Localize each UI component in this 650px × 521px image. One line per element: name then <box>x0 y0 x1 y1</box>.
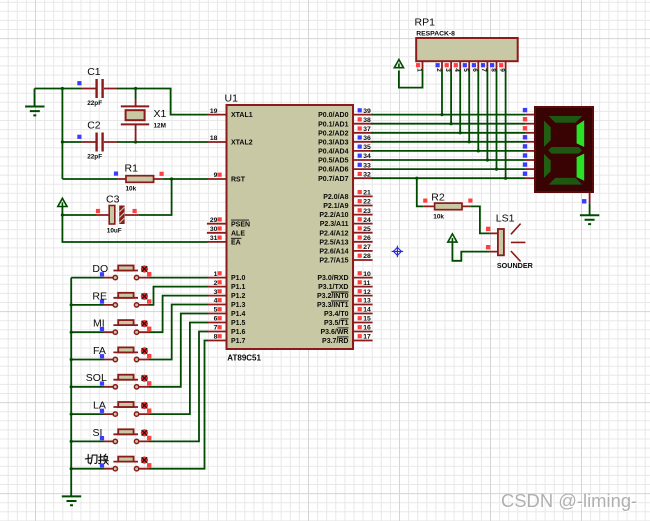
pin 32 P0.7/AD7 <box>318 171 372 182</box>
node rail junction <box>61 87 64 90</box>
svg-text:22pF: 22pF <box>87 153 102 160</box>
svg-text:15: 15 <box>363 316 371 323</box>
svg-text:P3.4/T0: P3.4/T0 <box>324 311 349 318</box>
wire button SI left <box>71 440 103 442</box>
wire P0.1 row <box>372 123 526 125</box>
wire P0.0 row <box>372 114 526 116</box>
svg-text:R2: R2 <box>431 192 445 204</box>
svg-text:P1.2: P1.2 <box>231 293 246 300</box>
power arrow VCC RP1 <box>394 60 403 68</box>
button MI <box>93 318 151 335</box>
pin 31 EA <box>207 235 242 246</box>
pin 15 P3.5/T1 <box>324 316 373 327</box>
wire button ground rail <box>70 278 72 497</box>
wire LS1 bottom to VCC <box>452 243 490 261</box>
pin 35 P0.4/AD4 <box>318 144 372 155</box>
pin 26 P2.5/A13 <box>319 235 372 246</box>
button DO <box>92 263 151 280</box>
svg-text:3: 3 <box>214 289 218 296</box>
svg-text:10uF: 10uF <box>107 228 122 235</box>
wire button SOL to P1.4 <box>149 314 208 387</box>
svg-text:1: 1 <box>415 68 422 72</box>
svg-text:C3: C3 <box>106 194 120 206</box>
svg-text:17: 17 <box>363 334 371 341</box>
svg-text:P1.5: P1.5 <box>231 320 246 327</box>
svg-text:CSDN @-liming-: CSDN @-liming- <box>501 490 637 511</box>
wire button RE left <box>71 304 103 306</box>
svg-text:27: 27 <box>363 244 371 251</box>
svg-text:RE: RE <box>92 290 107 302</box>
button FA <box>93 345 151 362</box>
svg-text:P3.7/RD: P3.7/RD <box>322 338 348 345</box>
svg-text:RESPACK-8: RESPACK-8 <box>416 30 455 37</box>
pin 11 P3.1/TXD <box>318 280 372 291</box>
wire RP1 pin 6 drop <box>477 70 479 151</box>
svg-text:P1.0: P1.0 <box>231 275 246 282</box>
power arrow VCC reset <box>58 198 67 206</box>
wire button LA left <box>71 413 103 415</box>
svg-text:6: 6 <box>471 68 478 72</box>
wire button 切换 left <box>71 468 103 470</box>
wire VCC to EA pin <box>62 215 207 242</box>
wire 7seg common to ground <box>589 203 591 215</box>
7seg segment F off <box>544 121 551 147</box>
svg-text:19: 19 <box>210 108 218 115</box>
pin 19 XTAL1 <box>207 108 253 119</box>
svg-text:4: 4 <box>453 68 460 72</box>
svg-text:31: 31 <box>210 235 218 242</box>
button SI <box>93 427 152 444</box>
pin 5 P1.4 <box>207 307 246 318</box>
pin 3 RP1 <box>444 61 451 72</box>
pin 4 P1.3 <box>207 298 246 309</box>
origin marker <box>392 246 404 258</box>
pin 37 P0.2/AD2 <box>318 126 372 137</box>
wire P0.4 row <box>372 150 526 152</box>
svg-text:P0.6/AD6: P0.6/AD6 <box>318 167 348 174</box>
svg-text:RST: RST <box>231 177 246 184</box>
svg-text:3: 3 <box>444 68 451 72</box>
pin 6 P1.5 <box>207 316 246 327</box>
pin 9 RST <box>207 172 246 183</box>
svg-text:23: 23 <box>363 208 371 215</box>
7seg display body <box>534 106 594 193</box>
pin 5 RP1 <box>462 61 469 72</box>
svg-text:C2: C2 <box>87 120 101 132</box>
pin 27 P2.6/A14 <box>319 244 372 255</box>
7seg segment G off <box>548 147 582 154</box>
node crystal top junction <box>134 87 137 90</box>
wire ground rail <box>61 89 63 180</box>
svg-text:8: 8 <box>489 68 496 72</box>
pin 7 P1.6 <box>207 325 246 336</box>
svg-text:P1.4: P1.4 <box>231 311 246 318</box>
svg-text:4: 4 <box>214 298 218 305</box>
svg-text:SOUNDER: SOUNDER <box>497 261 534 270</box>
pin 38 P0.1/AD1 <box>318 117 372 128</box>
7seg segment A off <box>549 116 583 123</box>
node RST/C3 junction <box>170 177 173 180</box>
svg-text:P3.2/INT0: P3.2/INT0 <box>317 293 349 300</box>
svg-text:12M: 12M <box>154 123 166 130</box>
svg-text:P0.2/AD2: P0.2/AD2 <box>318 130 348 137</box>
wire crystal top <box>135 89 137 100</box>
wire RP1 pin 9 drop <box>505 70 507 178</box>
svg-text:P3.0/RXD: P3.0/RXD <box>317 275 348 282</box>
pin 30 ALE <box>207 226 245 237</box>
svg-text:PSEN: PSEN <box>231 221 250 228</box>
wire button FA to P1.3 <box>149 305 208 360</box>
pin 12 P3.2/INT0 <box>317 289 373 300</box>
7seg segment B on <box>577 120 585 147</box>
resistor R1 10k <box>114 163 164 193</box>
7seg segment E off <box>544 154 551 178</box>
svg-text:39: 39 <box>363 108 371 115</box>
ground top-left <box>34 89 36 107</box>
wire RP1 pin1 to VCC <box>399 70 423 88</box>
svg-text:9: 9 <box>498 68 505 72</box>
sounder LS1 <box>486 212 534 269</box>
svg-text:EA: EA <box>231 240 241 247</box>
wire P0.6 row <box>372 168 526 170</box>
svg-text:R1: R1 <box>125 163 139 175</box>
svg-text:25: 25 <box>363 226 371 233</box>
wire button DO to P1.0 <box>149 277 208 279</box>
pin 39 P0.0/AD0 <box>318 108 372 119</box>
pin 7seg 8 <box>526 177 534 179</box>
capacitor C2 <box>77 120 117 161</box>
svg-text:P1.7: P1.7 <box>231 338 246 345</box>
svg-text:P0.5/AD5: P0.5/AD5 <box>318 158 348 165</box>
svg-text:P1.3: P1.3 <box>231 302 246 309</box>
svg-text:P2.4/A12: P2.4/A12 <box>319 230 348 237</box>
pin 7 RP1 <box>480 61 487 72</box>
pin 3 P1.2 <box>207 289 246 300</box>
wire button MI left <box>71 331 103 333</box>
svg-text:34: 34 <box>363 153 371 160</box>
svg-text:29: 29 <box>210 217 218 224</box>
node rail/XTAL2 junction <box>61 140 64 143</box>
wire button 切换 to P1.7 <box>149 341 208 469</box>
wire P0.7 row <box>372 177 526 179</box>
svg-text:P2.0/A8: P2.0/A8 <box>323 194 348 201</box>
svg-text:XTAL2: XTAL2 <box>231 140 253 147</box>
pin 16 P3.6/WR <box>320 325 372 336</box>
svg-text:C1: C1 <box>87 66 101 78</box>
svg-text:6: 6 <box>214 316 218 323</box>
resistor R2 10k <box>423 192 472 221</box>
pin 8 P1.7 <box>207 334 246 345</box>
pin 9 RP1 <box>498 61 505 72</box>
wire P0.7 to R2 <box>417 178 424 206</box>
svg-text:P3.6/WR: P3.6/WR <box>320 329 348 336</box>
svg-text:P2.5/A13: P2.5/A13 <box>319 239 348 246</box>
pin 14 P3.4/T0 <box>324 307 373 318</box>
svg-text:8: 8 <box>214 334 218 341</box>
svg-text:U1: U1 <box>225 93 239 105</box>
wire button FA left <box>71 359 103 361</box>
pin 4 RP1 <box>453 61 460 72</box>
pin 7seg 4 <box>526 141 534 143</box>
svg-text:P2.7/A15: P2.7/A15 <box>319 258 348 265</box>
svg-text:21: 21 <box>363 190 371 197</box>
svg-text:P3.1/TXD: P3.1/TXD <box>318 284 348 291</box>
pin 6 RP1 <box>471 61 478 72</box>
svg-text:AT89C51: AT89C51 <box>227 353 261 362</box>
svg-text:7: 7 <box>214 325 218 332</box>
wire button DO left <box>71 277 103 279</box>
ground buttons <box>62 496 81 505</box>
wire P0.2 row <box>372 132 526 134</box>
svg-text:11: 11 <box>363 280 370 287</box>
svg-text:26: 26 <box>363 235 371 242</box>
svg-text:P0.7/AD7: P0.7/AD7 <box>318 176 348 183</box>
pin 22 P2.1/A9 <box>323 199 372 210</box>
svg-text:33: 33 <box>363 162 371 169</box>
pin 7seg 7 <box>526 168 534 170</box>
wire RP1 pin 3 drop <box>450 70 452 124</box>
svg-text:RP1: RP1 <box>415 17 436 29</box>
ground 7seg <box>580 215 599 224</box>
svg-text:16: 16 <box>363 325 371 332</box>
svg-text:22pF: 22pF <box>87 100 102 107</box>
wire R2 to LS1 <box>470 206 490 233</box>
svg-text:32: 32 <box>363 171 371 178</box>
wire net RST <box>62 178 117 180</box>
power arrow VCC LS1 <box>448 234 457 242</box>
button RE <box>92 290 151 307</box>
svg-text:2: 2 <box>214 280 218 287</box>
svg-text:P0.3/AD3: P0.3/AD3 <box>318 139 348 146</box>
wire button RE to P1.1 <box>149 287 208 305</box>
wire button MI to P1.2 <box>149 296 208 333</box>
pin 2 P1.1 <box>207 280 246 291</box>
svg-text:24: 24 <box>363 217 371 224</box>
wire button LA to P1.5 <box>149 323 208 415</box>
svg-text:1: 1 <box>214 271 218 278</box>
pin 1 RP1 <box>415 61 422 72</box>
svg-text:ALE: ALE <box>231 230 245 237</box>
svg-text:18: 18 <box>210 135 218 142</box>
pin 28 P2.7/A15 <box>319 253 372 264</box>
svg-text:P2.1/A9: P2.1/A9 <box>323 203 348 210</box>
pin 18 XTAL2 <box>207 135 253 146</box>
wire VCC to C3 left <box>62 207 96 215</box>
svg-text:10: 10 <box>363 271 371 278</box>
wire net XTAL2 <box>62 141 81 143</box>
svg-text:2: 2 <box>435 68 442 72</box>
capacitor C1 <box>77 66 117 107</box>
pin 7seg 2 <box>526 123 534 125</box>
pin 8 RP1 <box>489 61 496 72</box>
svg-text:P1.1: P1.1 <box>231 284 246 291</box>
7seg segment D off <box>549 178 583 185</box>
chip U1 AT89C51 <box>227 105 354 349</box>
svg-text:P2.3/A11: P2.3/A11 <box>320 221 349 228</box>
svg-text:P0.4/AD4: P0.4/AD4 <box>318 149 348 156</box>
wire net XTAL1 <box>35 88 82 90</box>
svg-text:LS1: LS1 <box>496 212 515 224</box>
button SOL <box>86 372 152 389</box>
svg-text:38: 38 <box>363 117 371 124</box>
svg-text:XTAL1: XTAL1 <box>231 112 253 119</box>
svg-text:P3.5/T1: P3.5/T1 <box>324 320 349 327</box>
button 切换 <box>85 454 151 471</box>
7seg segment C on <box>577 154 585 181</box>
svg-text:P0.1/AD1: P0.1/AD1 <box>318 121 348 128</box>
wire RP1 pin 7 drop <box>486 70 488 160</box>
svg-text:10k: 10k <box>433 213 444 220</box>
resistor pack RP1 RESPACK-8 <box>416 38 518 61</box>
wire RP1 pin 8 drop <box>496 70 498 169</box>
svg-text:P0.0/AD0: P0.0/AD0 <box>318 112 348 119</box>
pin 23 P2.2/A10 <box>319 208 372 219</box>
pin 24 P2.3/A11 <box>320 217 373 228</box>
svg-text:P2.6/A14: P2.6/A14 <box>319 249 348 256</box>
crystal X1 12M <box>121 99 167 142</box>
svg-text:P3.3/INT1: P3.3/INT1 <box>317 302 349 309</box>
pin 7seg 1 <box>526 114 534 116</box>
pin 2 RP1 <box>435 61 442 72</box>
pin 7seg 5 <box>526 150 534 152</box>
pin 1 P1.0 <box>207 271 246 282</box>
svg-text:7: 7 <box>480 68 487 72</box>
svg-text:P1.6: P1.6 <box>231 329 246 336</box>
svg-text:36: 36 <box>363 135 371 142</box>
pin 33 P0.6/AD6 <box>318 162 372 173</box>
svg-text:28: 28 <box>363 253 371 260</box>
wire P0.3 row <box>372 141 526 143</box>
svg-text:5: 5 <box>462 68 469 72</box>
pin 13 P3.3/INT1 <box>317 298 373 309</box>
pin 34 P0.5/AD5 <box>318 153 372 164</box>
wire button SI to P1.6 <box>149 332 208 442</box>
svg-text:37: 37 <box>363 126 371 133</box>
svg-text:12: 12 <box>363 289 371 296</box>
pin 7seg 3 <box>526 132 534 134</box>
svg-text:22: 22 <box>363 199 371 206</box>
pin 7seg common <box>589 193 591 203</box>
button LA <box>93 400 151 417</box>
wire RP1 pin 4 drop <box>459 70 461 133</box>
wire RP1 pin 2 drop <box>441 70 443 115</box>
svg-text:X1: X1 <box>154 108 167 120</box>
pin 36 P0.3/AD3 <box>318 135 372 146</box>
svg-text:9: 9 <box>214 172 218 179</box>
pin 7seg 6 <box>526 159 534 161</box>
svg-text:30: 30 <box>210 226 218 233</box>
pin 25 P2.4/A12 <box>319 226 372 237</box>
node P0.7/R2 branch <box>415 177 418 180</box>
svg-text:P2.2/A10: P2.2/A10 <box>319 212 348 219</box>
svg-text:13: 13 <box>363 298 371 305</box>
svg-text:35: 35 <box>363 144 371 151</box>
wire button SOL left <box>71 386 103 388</box>
wire P0.5 row <box>372 159 526 161</box>
svg-text:14: 14 <box>363 307 371 314</box>
pin 10 P3.0/RXD <box>317 271 372 282</box>
svg-text:10k: 10k <box>126 186 137 193</box>
pin 21 P2.0/A8 <box>323 190 372 201</box>
wire RP1 pin 5 drop <box>468 70 470 142</box>
svg-text:5: 5 <box>214 307 218 314</box>
capacitor C3 10uF electrolytic <box>96 194 138 235</box>
pin 29 PSEN <box>207 217 250 228</box>
pin 17 P3.7/RD <box>322 334 373 345</box>
